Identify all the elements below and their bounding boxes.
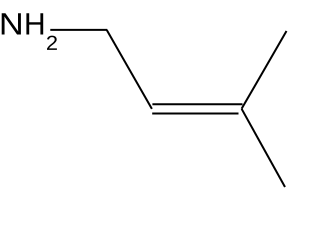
double bond C2=C3 upper line bbox=[152, 103, 242, 105]
bond C3-C5 methyl down bbox=[242, 109, 285, 187]
double bond C2=C3 lower line bbox=[152, 113, 238, 115]
atom label N of amine group (letter N) bbox=[2, 13, 21, 34]
bond N-C1 bbox=[50, 29, 107, 31]
atom label H of amine group (letter H) bbox=[26, 13, 43, 34]
bond C1-C2 bbox=[107, 30, 152, 109]
bond C3-C4 methyl up bbox=[242, 31, 287, 109]
atom label subscript 2 of NH2 bbox=[47, 36, 57, 50]
